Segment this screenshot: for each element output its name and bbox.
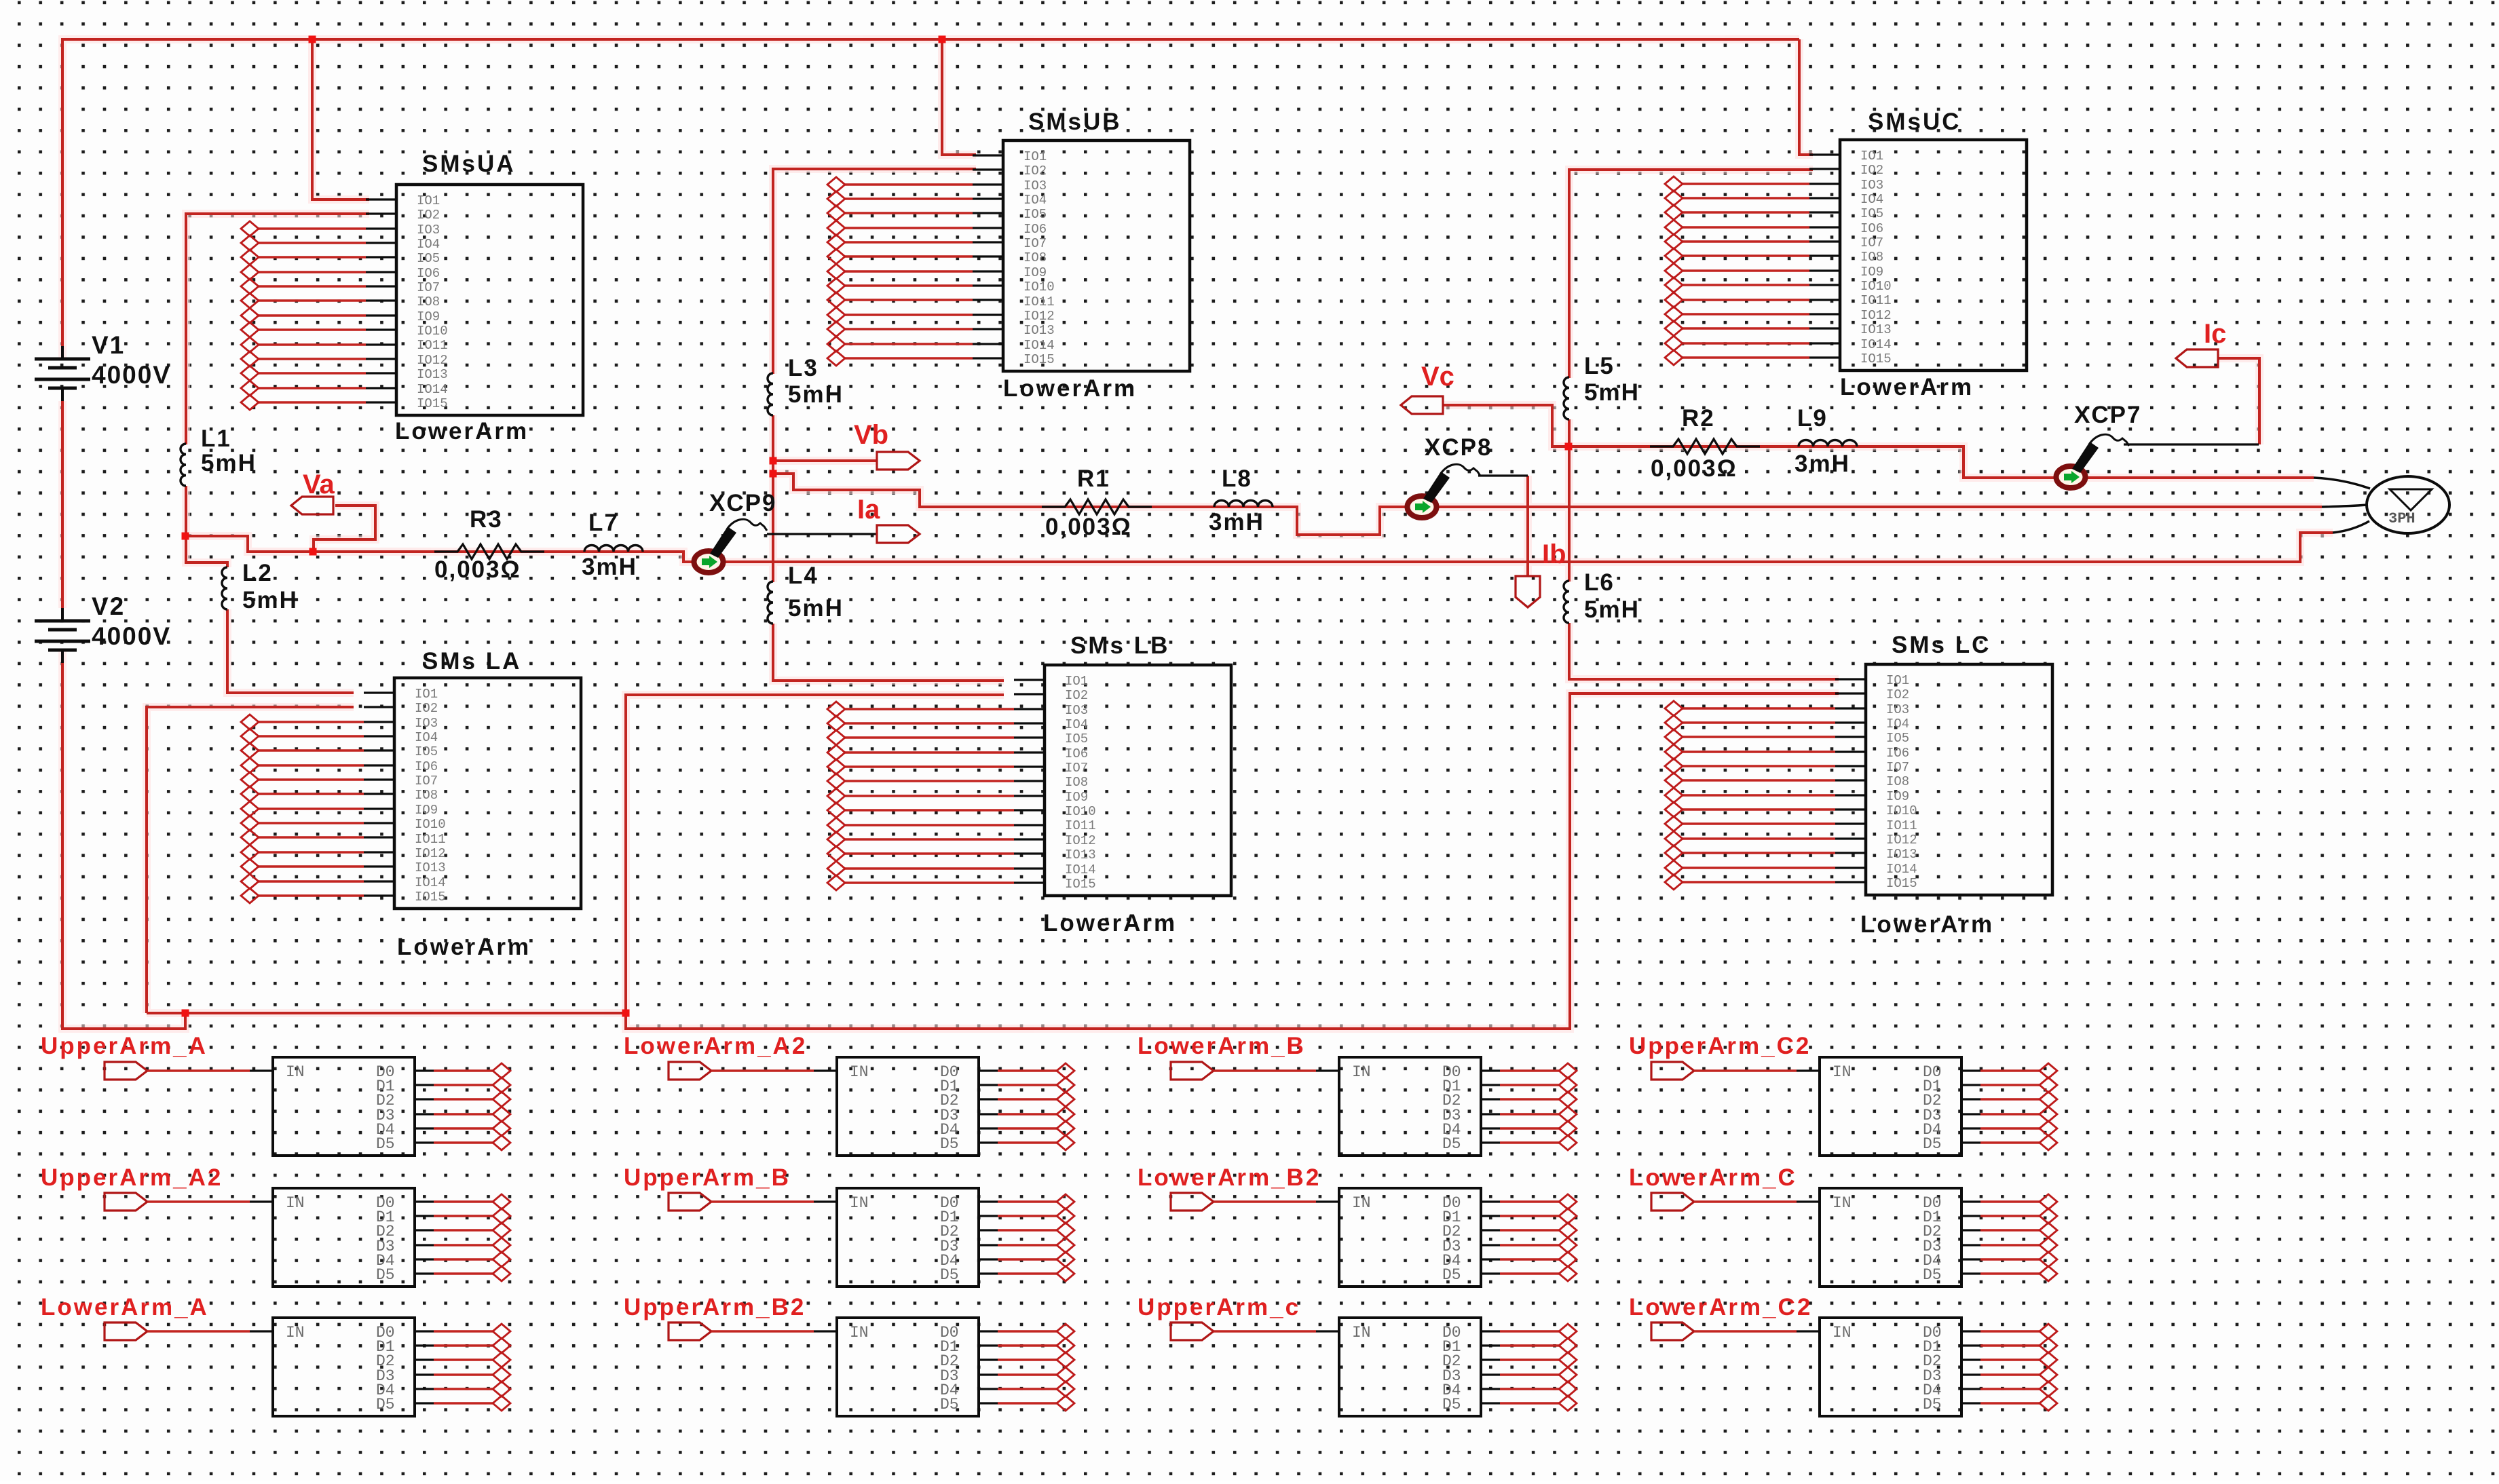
- svg-text:IO8: IO8: [1860, 250, 1883, 265]
- wire: V2 negative riser to rail: [62, 651, 185, 1029]
- block UpperArm_C2 input terminal pentagon: [1651, 1062, 1694, 1080]
- svg-text:IN: IN: [850, 1063, 869, 1081]
- block UpperArm_A2 IN pin stub: [250, 1200, 273, 1202]
- svg-text:IO12: IO12: [1860, 308, 1892, 323]
- block UpperArm_B2 diamond terminals D0-D5: [1057, 1324, 1074, 1411]
- SMsUA diamond terminals IO3-IO15: [241, 221, 259, 410]
- svg-text:D5: D5: [1442, 1396, 1461, 1413]
- svg-text:IO7: IO7: [1860, 235, 1883, 250]
- svg-text:UpperArm_B2: UpperArm_B2: [624, 1294, 806, 1320]
- svg-text:LowerArm: LowerArm: [1860, 911, 1994, 938]
- inductor L3 5mH: [768, 373, 773, 415]
- svg-text:IO9: IO9: [1860, 265, 1883, 280]
- svg-text:IO3: IO3: [1065, 703, 1088, 718]
- block LowerArm_A diamond terminals D0-D5: [493, 1324, 510, 1411]
- current clamp probe XCP9: [694, 551, 724, 573]
- svg-text:L6: L6: [1584, 569, 1615, 596]
- SMsLA distributed terminals: wires pins IO3-IO15: [259, 722, 364, 896]
- block LowerArm_B2 IN pin stub: [1316, 1200, 1339, 1202]
- svg-text:3PH: 3PH: [2388, 510, 2416, 527]
- wire: L2 bottom to SMs LA IO1: [227, 609, 354, 693]
- svg-text:IO9: IO9: [1886, 789, 1909, 804]
- svg-text:Ib: Ib: [1542, 539, 1566, 569]
- resistor R2 0,003ohm: [1650, 439, 1760, 454]
- node: Vb tap junction: [770, 457, 777, 465]
- svg-text:IO8: IO8: [1023, 250, 1047, 265]
- svg-text:IN: IN: [1833, 1324, 1852, 1342]
- svg-text:IO9: IO9: [415, 803, 438, 818]
- svg-text:IO13: IO13: [415, 860, 446, 875]
- svg-text:IO7: IO7: [1065, 761, 1088, 776]
- svg-text:IO12: IO12: [415, 846, 446, 861]
- svg-text:IO10: IO10: [1886, 803, 1917, 818]
- battery V1 4000V: [35, 359, 90, 388]
- svg-text:IO15: IO15: [1886, 876, 1917, 891]
- block LowerArm_C2 IN pin stub: [1797, 1330, 1820, 1332]
- current clamp probe XCP7: [2056, 466, 2086, 488]
- svg-text:IO4: IO4: [1065, 717, 1088, 732]
- block LowerArm_C2 input terminal pentagon: [1651, 1323, 1694, 1340]
- svg-text:IO4: IO4: [1860, 192, 1883, 207]
- block LowerArm_A output pin stubs D0-D5: [415, 1331, 434, 1403]
- block LowerArm_B2 diamond terminals D0-D5: [1559, 1194, 1577, 1281]
- probe Va (voltage phase A): [291, 497, 333, 514]
- block LowerArm_B2 output pin stubs D0-D5: [1481, 1202, 1500, 1274]
- wire: L4 bottom to SMs LB IO1: [773, 624, 1004, 681]
- svg-text:IO5: IO5: [1023, 207, 1047, 222]
- wire: SMsUA IO1 riser: [312, 39, 369, 199]
- probe Ib (current phase B): [1516, 576, 1540, 607]
- svg-text:IO10: IO10: [1860, 279, 1892, 294]
- node: V2 negative / -DC rail: [182, 1010, 189, 1017]
- svg-text:D5: D5: [1923, 1396, 1942, 1413]
- block LowerArm_B input wire: [1214, 1069, 1316, 1071]
- block LowerArm_C2 pin labels: [1833, 1324, 1942, 1413]
- block LowerArm_A2 input terminal pentagon: [669, 1062, 711, 1080]
- svg-text:IO14: IO14: [1065, 862, 1096, 877]
- svg-text:V2: V2: [92, 592, 125, 620]
- SMsUA pin name labels IO1..IO15: [417, 193, 448, 411]
- inductor L6 5mH: [1564, 581, 1569, 623]
- svg-text:D5: D5: [940, 1396, 959, 1413]
- wire: SMsUC IO1 drop: [1799, 39, 1813, 155]
- svg-text:LowerArm: LowerArm: [397, 934, 531, 960]
- svg-text:IO14: IO14: [1860, 337, 1892, 352]
- svg-text:L7: L7: [588, 510, 619, 536]
- submodule chain block SMsUA: [396, 185, 583, 415]
- svg-text:5mH: 5mH: [788, 381, 844, 408]
- gate-driver block block LowerArm_A2: [837, 1057, 979, 1156]
- svg-text:IO5: IO5: [1886, 731, 1909, 746]
- svg-text:IO4: IO4: [1023, 193, 1047, 208]
- svg-text:SMsUA: SMsUA: [422, 151, 516, 177]
- svg-text:IN: IN: [1833, 1194, 1852, 1212]
- svg-text:IO6: IO6: [1886, 746, 1909, 761]
- svg-text:LowerArm: LowerArm: [1043, 910, 1177, 936]
- block LowerArm_B IN pin stub: [1316, 1069, 1339, 1071]
- probe Ia (current phase A): [877, 525, 920, 543]
- block LowerArm_C2 output wires to terminals: [1980, 1331, 2040, 1403]
- block UpperArm_B output wires to terminals: [998, 1202, 1057, 1274]
- inductor L8 3mH: [1214, 501, 1273, 508]
- svg-text:SMs LA: SMs LA: [422, 648, 521, 674]
- svg-text:LowerArm: LowerArm: [1003, 375, 1137, 402]
- current clamp probe XCP8: [1408, 496, 1437, 518]
- svg-text:R3: R3: [470, 506, 503, 533]
- SMsUA pin stubs (IO1-IO15): [366, 199, 396, 402]
- svg-text:IO6: IO6: [1065, 746, 1088, 761]
- svg-text:LowerArm: LowerArm: [1840, 374, 1974, 400]
- svg-text:IO1: IO1: [1065, 674, 1088, 689]
- svg-text:IO15: IO15: [417, 396, 448, 411]
- svg-text:IO2: IO2: [1860, 163, 1883, 178]
- block UpperArm_A diamond terminals D0-D5: [493, 1063, 510, 1150]
- svg-text:IN: IN: [1352, 1194, 1371, 1212]
- wire: -DC bottom rail: [147, 693, 1839, 1029]
- svg-text:LowerArm_B: LowerArm_B: [1138, 1033, 1306, 1059]
- svg-text:IO3: IO3: [1860, 178, 1883, 193]
- svg-text:Ia: Ia: [857, 495, 880, 525]
- submodule chain block SMsLB: [1045, 665, 1231, 896]
- SMsUC distributed terminals: wires pins IO3-IO15: [1683, 184, 1809, 358]
- submodule chain block SMsLA: [394, 678, 581, 909]
- block UpperArm_B IN pin stub: [814, 1200, 837, 1202]
- gate-driver block block UpperArm_C2: [1820, 1057, 1961, 1156]
- block LowerArm_C input wire: [1694, 1200, 1797, 1202]
- block UpperArm_A pin labels: [286, 1063, 395, 1153]
- block LowerArm_C input terminal pentagon: [1651, 1193, 1694, 1211]
- wire: Vc probe tap: [1443, 405, 1568, 446]
- svg-text:SMs LB: SMs LB: [1070, 632, 1169, 659]
- block UpperArm_B2 input terminal pentagon: [669, 1323, 711, 1340]
- svg-text:IO12: IO12: [1065, 833, 1096, 848]
- wire: Va probe tap: [314, 506, 375, 552]
- block UpperArm_A output wires to terminals: [434, 1071, 493, 1143]
- svg-text:R1: R1: [1077, 465, 1110, 492]
- probe Vb (voltage phase B): [877, 452, 920, 470]
- svg-text:IO1: IO1: [415, 687, 438, 702]
- svg-text:IO6: IO6: [1023, 222, 1047, 237]
- svg-text:UpperArm_c: UpperArm_c: [1138, 1294, 1300, 1320]
- svg-text:5mH: 5mH: [201, 450, 257, 476]
- submodule chain block SMsLC: [1866, 664, 2052, 895]
- SMsLA pin name labels IO1..IO15: [415, 687, 446, 905]
- svg-text:IN: IN: [286, 1324, 305, 1342]
- wire: SMs LA IO2 to -DC rail: [147, 707, 354, 1013]
- svg-text:IO1: IO1: [1860, 149, 1883, 164]
- svg-text:XCP9: XCP9: [709, 490, 776, 516]
- svg-text:IO2: IO2: [417, 208, 440, 223]
- motor lead phase B: [2322, 505, 2368, 507]
- svg-text:LowerArm_C2: LowerArm_C2: [1629, 1294, 1812, 1320]
- block LowerArm_C2 input wire: [1694, 1330, 1797, 1332]
- block LowerArm_C diamond terminals D0-D5: [2040, 1194, 2057, 1281]
- wire stub: XCP7 output: [2124, 443, 2259, 445]
- wire: node A to R3 run (phase A output): [185, 533, 2333, 562]
- svg-text:0,003Ω: 0,003Ω: [434, 556, 521, 583]
- block UpperArm_c output wires to terminals: [1500, 1331, 1559, 1403]
- block LowerArm_C IN pin stub: [1797, 1200, 1820, 1202]
- inductor L7 3mH: [584, 546, 643, 552]
- block LowerArm_A2 pin labels: [850, 1063, 959, 1153]
- block LowerArm_A2 input wire: [711, 1069, 814, 1071]
- submodule chain block SMsUB: [1003, 140, 1190, 371]
- svg-text:IO14: IO14: [1023, 338, 1055, 353]
- block LowerArm_A pin labels: [286, 1324, 395, 1413]
- svg-text:V1: V1: [92, 331, 125, 359]
- SMsUB distributed terminals: wires pins IO3-IO15: [845, 185, 973, 358]
- wire: Ic probe drop to XCP7 output: [2217, 358, 2259, 444]
- block LowerArm_C2 output pin stubs D0-D5: [1961, 1331, 1980, 1403]
- svg-text:IO9: IO9: [417, 309, 440, 324]
- svg-text:D5: D5: [376, 1266, 395, 1284]
- SMsUB pin stubs (IO1-IO15): [973, 155, 1003, 358]
- wire: L3 bottom to Vb node: [772, 415, 774, 474]
- svg-text:IO13: IO13: [1860, 322, 1892, 337]
- svg-text:L4: L4: [788, 563, 819, 589]
- block UpperArm_B pin labels: [850, 1194, 959, 1284]
- svg-text:IO12: IO12: [1886, 833, 1917, 848]
- svg-text:IO7: IO7: [1023, 236, 1047, 251]
- svg-text:L2: L2: [242, 560, 273, 586]
- block LowerArm_A input terminal pentagon: [105, 1323, 147, 1340]
- svg-text:L8: L8: [1222, 465, 1252, 492]
- svg-text:IO12: IO12: [1023, 309, 1055, 324]
- wire stub: XCP9 output to Ia probe: [767, 533, 877, 535]
- svg-text:IO9: IO9: [1065, 790, 1088, 805]
- svg-text:IO5: IO5: [1065, 731, 1088, 746]
- wire: V1/V2 DC link: [61, 401, 64, 608]
- block UpperArm_C2 diamond terminals D0-D5: [2040, 1063, 2057, 1150]
- block LowerArm_A2 output pin stubs D0-D5: [979, 1071, 998, 1143]
- svg-text:R2: R2: [1682, 405, 1715, 432]
- wire: Vb probe tap: [773, 459, 877, 462]
- svg-text:Ic: Ic: [2204, 319, 2226, 349]
- svg-text:D5: D5: [940, 1135, 959, 1153]
- SMsLB pin stubs (IO1-IO15): [1014, 680, 1045, 883]
- svg-text:IN: IN: [286, 1194, 305, 1212]
- SMsUB diamond terminals IO3-IO15: [827, 177, 845, 366]
- svg-text:IO8: IO8: [417, 294, 440, 309]
- block UpperArm_C2 pin labels: [1833, 1063, 1942, 1153]
- svg-text:UpperArm_B: UpperArm_B: [624, 1164, 791, 1191]
- probe Vc (voltage phase C): [1401, 396, 1443, 414]
- block UpperArm_A input terminal pentagon: [105, 1062, 147, 1080]
- block LowerArm_A output wires to terminals: [434, 1331, 493, 1403]
- gate-driver block block UpperArm_c: [1339, 1318, 1481, 1416]
- block LowerArm_B input terminal pentagon: [1171, 1062, 1214, 1080]
- block LowerArm_B pin labels: [1352, 1063, 1461, 1153]
- gate-driver block block LowerArm_C2: [1820, 1318, 1961, 1416]
- SMsLA pin stubs (IO1-IO15): [364, 693, 394, 896]
- svg-text:5mH: 5mH: [1584, 596, 1640, 623]
- svg-text:IO11: IO11: [417, 338, 448, 353]
- svg-text:LowerArm_A: LowerArm_A: [41, 1294, 209, 1320]
- svg-text:L1: L1: [201, 425, 231, 452]
- svg-text:IO6: IO6: [417, 266, 440, 281]
- block UpperArm_B input terminal pentagon: [669, 1193, 711, 1211]
- svg-text:IO11: IO11: [1886, 818, 1917, 833]
- svg-text:UpperArm_A: UpperArm_A: [41, 1033, 208, 1059]
- inductor L2 5mH: [222, 567, 227, 609]
- wire: L1 bottom to node A: [185, 486, 187, 536]
- resistor R3 0,003ohm: [434, 544, 544, 559]
- block UpperArm_A2 diamond terminals D0-D5: [493, 1194, 510, 1281]
- svg-text:IO15: IO15: [1860, 351, 1892, 366]
- svg-text:IO6: IO6: [415, 759, 438, 774]
- svg-text:D5: D5: [1442, 1266, 1461, 1284]
- svg-text:Vc: Vc: [1421, 362, 1454, 392]
- wire: phase B tap to R1/L8/XCP8 run: [773, 474, 2322, 535]
- svg-text:XCP7: XCP7: [2074, 402, 2141, 428]
- svg-text:IO13: IO13: [417, 367, 448, 382]
- svg-text:IO1: IO1: [417, 193, 440, 208]
- svg-text:SMs LC: SMs LC: [1892, 632, 1991, 658]
- block LowerArm_C pin labels: [1833, 1194, 1942, 1284]
- inductor L5 5mH: [1564, 377, 1569, 419]
- svg-text:IO3: IO3: [417, 223, 440, 237]
- svg-text:IO11: IO11: [1023, 294, 1055, 309]
- svg-text:4000V: 4000V: [92, 361, 171, 389]
- svg-text:LowerArm_A2: LowerArm_A2: [624, 1033, 807, 1059]
- svg-text:IO15: IO15: [415, 890, 446, 905]
- block LowerArm_C output wires to terminals: [1980, 1202, 2040, 1274]
- svg-text:3mH: 3mH: [1209, 509, 1264, 535]
- svg-text:IO13: IO13: [1886, 847, 1917, 862]
- svg-text:IO13: IO13: [1023, 323, 1055, 338]
- wire: phase C node to R2/L9/XCP7 run: [1568, 446, 2314, 478]
- submodule chain block SMsUC: [1840, 140, 2027, 370]
- svg-text:IO7: IO7: [1886, 760, 1909, 775]
- svg-text:5mH: 5mH: [242, 587, 298, 613]
- block UpperArm_B2 output pin stubs D0-D5: [979, 1331, 998, 1403]
- svg-text:IO11: IO11: [1860, 293, 1892, 308]
- three-phase motor 3PH: [2367, 476, 2449, 533]
- svg-text:IO2: IO2: [1023, 164, 1047, 178]
- svg-text:IN: IN: [850, 1194, 869, 1212]
- wire: L5-L6 arm link: [1568, 446, 1571, 582]
- svg-text:IO8: IO8: [1886, 774, 1909, 789]
- wire: SMsUB IO1 riser: [942, 39, 976, 155]
- block LowerArm_A IN pin stub: [250, 1330, 273, 1332]
- svg-text:IO14: IO14: [415, 875, 446, 890]
- wire: SMsUA IO2 to L1: [186, 214, 369, 444]
- wire: SMsUC IO2 to L5: [1569, 170, 1813, 378]
- svg-text:IO11: IO11: [1065, 818, 1096, 833]
- block UpperArm_c input terminal pentagon: [1171, 1323, 1214, 1340]
- svg-text:D5: D5: [1923, 1266, 1942, 1284]
- SMsUC pin name labels IO1..IO15: [1860, 149, 1892, 366]
- svg-text:IO10: IO10: [417, 324, 448, 339]
- SMsLC diamond terminals IO3-IO15: [1665, 701, 1683, 890]
- SMsLB pin name labels IO1..IO15: [1065, 674, 1096, 892]
- block UpperArm_c output pin stubs D0-D5: [1481, 1331, 1500, 1403]
- node A (phase A arm midpoint): [182, 533, 189, 540]
- node: Va tap junction: [309, 548, 317, 556]
- inductor L1 5mH: [181, 444, 186, 486]
- svg-text:XCP8: XCP8: [1425, 434, 1492, 461]
- block UpperArm_B input wire: [711, 1200, 814, 1202]
- SMsLB diamond terminals IO3-IO15: [827, 702, 845, 890]
- svg-text:IO2: IO2: [1065, 688, 1088, 703]
- gate-driver block block UpperArm_B2: [837, 1318, 979, 1416]
- block LowerArm_B2 input terminal pentagon: [1171, 1193, 1214, 1211]
- wire: SMsUB IO2 to L3: [773, 169, 976, 374]
- svg-text:D5: D5: [1923, 1135, 1942, 1153]
- svg-text:IO4: IO4: [415, 730, 438, 745]
- svg-text:IO3: IO3: [1886, 702, 1909, 717]
- block LowerArm_B2 pin labels: [1352, 1194, 1461, 1284]
- svg-text:SMsUC: SMsUC: [1868, 109, 1961, 135]
- svg-text:IO5: IO5: [1860, 206, 1883, 221]
- svg-text:IO7: IO7: [417, 280, 440, 295]
- SMsLC pin stubs (IO1-IO15): [1835, 679, 1866, 882]
- svg-text:IO9: IO9: [1023, 265, 1047, 280]
- block UpperArm_c diamond terminals D0-D5: [1559, 1324, 1577, 1411]
- SMsLC distributed terminals: wires pins IO3-IO15: [1683, 708, 1835, 882]
- svg-text:IO14: IO14: [1886, 862, 1917, 877]
- SMsLB distributed terminals: wires pins IO3-IO15: [845, 709, 1014, 883]
- svg-text:D5: D5: [376, 1396, 395, 1413]
- SMsUB pin name labels IO1..IO15: [1023, 149, 1055, 367]
- gate-driver block block LowerArm_B: [1339, 1057, 1481, 1156]
- gate-driver block block UpperArm_A2: [273, 1188, 415, 1287]
- motor lead phase A: [2333, 521, 2369, 533]
- svg-text:LowerArm_B2: LowerArm_B2: [1138, 1164, 1321, 1191]
- block UpperArm_c pin labels: [1352, 1324, 1461, 1413]
- svg-text:D5: D5: [940, 1266, 959, 1284]
- block UpperArm_c input wire: [1214, 1330, 1316, 1332]
- svg-text:3mH: 3mH: [582, 554, 637, 580]
- svg-text:IO14: IO14: [417, 382, 448, 397]
- block UpperArm_B2 pin labels: [850, 1324, 959, 1413]
- svg-text:UpperArm_A2: UpperArm_A2: [41, 1164, 223, 1191]
- wire: node A down to L2: [186, 536, 227, 567]
- svg-text:IO3: IO3: [415, 716, 438, 731]
- svg-text:IO7: IO7: [415, 774, 438, 788]
- wire: L5 bottom to phase C node: [1568, 419, 1571, 446]
- block LowerArm_B2 output wires to terminals: [1500, 1202, 1559, 1274]
- svg-text:L5: L5: [1584, 353, 1615, 379]
- gate-driver block block UpperArm_B: [837, 1188, 979, 1287]
- svg-text:IO8: IO8: [1065, 775, 1088, 790]
- inductor L9 3mH: [1799, 440, 1857, 447]
- block LowerArm_A2 IN pin stub: [814, 1069, 837, 1071]
- svg-text:IO2: IO2: [415, 701, 438, 716]
- node B (phase B arm midpoint): [770, 470, 777, 478]
- block LowerArm_C2 diamond terminals D0-D5: [2040, 1324, 2057, 1411]
- probe Ic (current phase C): [2176, 349, 2218, 367]
- block UpperArm_B2 input wire: [711, 1330, 814, 1332]
- svg-text:IN: IN: [1352, 1063, 1371, 1081]
- block LowerArm_B2 input wire: [1214, 1200, 1316, 1202]
- block UpperArm_B diamond terminals D0-D5: [1057, 1194, 1074, 1281]
- svg-text:D5: D5: [376, 1135, 395, 1153]
- svg-text:UpperArm_C2: UpperArm_C2: [1629, 1033, 1811, 1059]
- block UpperArm_B output pin stubs D0-D5: [979, 1202, 998, 1274]
- svg-text:5mH: 5mH: [788, 595, 844, 622]
- block UpperArm_B2 IN pin stub: [814, 1330, 837, 1332]
- svg-text:5mH: 5mH: [1584, 379, 1640, 406]
- block UpperArm_A2 output wires to terminals: [434, 1202, 493, 1274]
- wire: L3-L4 arm link: [772, 474, 774, 582]
- gate-driver block block LowerArm_A: [273, 1318, 415, 1416]
- inductor L4 5mH: [768, 582, 773, 624]
- svg-text:IO15: IO15: [1065, 877, 1096, 892]
- svg-text:IO2: IO2: [1886, 687, 1909, 702]
- block UpperArm_A input wire: [147, 1069, 250, 1071]
- block UpperArm_A2 input wire: [147, 1200, 250, 1202]
